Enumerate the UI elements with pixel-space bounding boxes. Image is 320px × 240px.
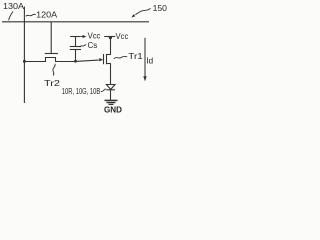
svg-text:Id: Id	[146, 55, 153, 65]
wire scan line 130A (horizontal)	[2, 21, 149, 23]
label 150 with arrow leader	[131, 3, 167, 17]
svg-text:120A: 120A	[36, 9, 57, 19]
svg-text:GND: GND	[104, 106, 122, 115]
svg-text:Vcc: Vcc	[88, 30, 101, 40]
wire data line to Tr2 source	[24, 61, 45, 63]
svg-text:Cs: Cs	[88, 40, 98, 50]
wire Tr2 drain to Tr1 gate node	[56, 60, 99, 61]
wire data line 120A (vertical)	[23, 7, 25, 104]
svg-text:150: 150	[153, 3, 168, 13]
ground GND	[104, 100, 122, 114]
label 120A	[26, 9, 58, 19]
svg-text:Tr2: Tr2	[44, 78, 60, 88]
svg-text:Vcc: Vcc	[116, 31, 129, 41]
transistor Tr1	[99, 51, 143, 64]
diode OLED element 10R,10G,10B	[62, 85, 115, 100]
current arrow Id	[143, 38, 153, 82]
capacitor Cs	[70, 37, 98, 62]
power Vcc terminal at Tr1	[104, 31, 128, 54]
node junction dot at data line / Tr2 wire	[23, 60, 26, 63]
wire Tr1 source down to OLED anode	[110, 64, 112, 85]
node junction dot at Cs / gate wire	[74, 60, 77, 63]
label 130A	[3, 1, 24, 20]
svg-text:10R, 10G, 10B: 10R, 10G, 10B	[62, 87, 101, 96]
svg-text:Tr1: Tr1	[128, 51, 143, 61]
power Vcc terminal at Cs	[70, 30, 100, 40]
transistor Tr2	[44, 22, 60, 88]
svg-text:130A: 130A	[3, 1, 24, 11]
